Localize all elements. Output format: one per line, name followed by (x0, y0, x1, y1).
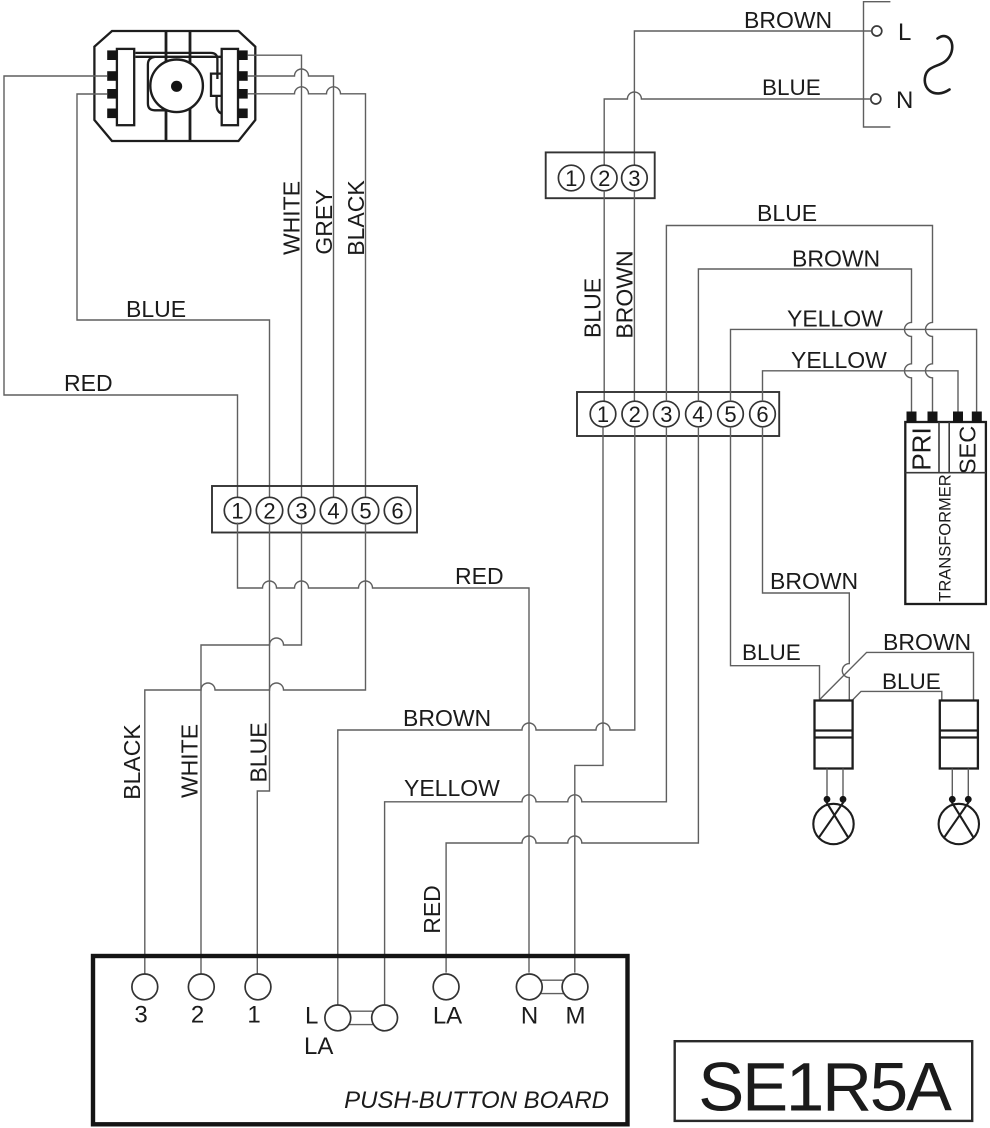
svg-text:PRI: PRI (907, 427, 937, 470)
terminal X3-3 (654, 401, 680, 427)
mains flexible-cord squiggle (925, 36, 952, 93)
wire BLUE: terminal X2-2 to mains N (hops over brown wire) (604, 92, 870, 165)
svg-text:BROWN: BROWN (883, 629, 971, 655)
svg-text:L: L (305, 1003, 318, 1030)
svg-text:YELLOW: YELLOW (787, 306, 883, 332)
terminal X1-5 (352, 497, 378, 523)
terminal X1-6 (384, 497, 410, 523)
svg-text:2: 2 (598, 166, 610, 191)
terminal X2-1 (558, 165, 584, 191)
wire YELLOW: X3-6 to transformer SEC pin1 (763, 371, 959, 412)
board terminal L (jumper left) (325, 1005, 351, 1031)
lamp E1 holder (815, 701, 853, 769)
lamp E1 holder divider lines (815, 731, 853, 738)
svg-text:BLACK: BLACK (343, 180, 369, 256)
svg-text:BROWN: BROWN (792, 246, 880, 272)
wire BLUE: lamp E1 right pin to lamp E2 left pin (diagonal) (853, 691, 942, 700)
wire BROWN: X3-6 to lamp E1 right pin (hops over diagonal) (763, 427, 850, 701)
motor pin right 4 (238, 109, 248, 119)
board terminal N (516, 974, 542, 1000)
board terminal 3 (132, 974, 158, 1000)
svg-text:1: 1 (231, 499, 243, 524)
terminal X1-2 (256, 497, 282, 523)
wire YELLOW: X3-3 to board LA jumper (hops over M wire and red wire) (385, 427, 667, 1005)
svg-text:6: 6 (756, 402, 768, 427)
svg-text:BLUE: BLUE (742, 640, 801, 665)
push-button board outline (93, 956, 628, 1124)
terminal block X3 (577, 392, 779, 436)
wire BROWN: terminal X2-3 to mains L (634, 31, 871, 165)
svg-text:SE1R5A: SE1R5A (698, 1049, 952, 1126)
svg-text:3: 3 (628, 166, 640, 191)
motor pin left 1 (107, 50, 117, 60)
svg-text:SEC: SEC (955, 426, 981, 474)
svg-text:5: 5 (359, 499, 371, 524)
motor capacitor symbol (211, 74, 221, 96)
terminal X3-2 (622, 401, 648, 427)
svg-text:RED: RED (64, 370, 113, 396)
lamp E2 bulb circle with X (939, 804, 979, 844)
svg-text:YELLOW: YELLOW (791, 347, 887, 373)
motor pin right 3 (238, 89, 248, 99)
motor terminal bracket right (222, 49, 238, 125)
svg-text:BLUE: BLUE (246, 722, 272, 782)
lamp E1 leads (827, 769, 843, 799)
motor M1 body octagon (94, 31, 255, 141)
terminal X3-6 (750, 401, 776, 427)
model label box SE1R5A (675, 1041, 973, 1121)
transformer pin (928, 412, 938, 423)
motor rotor circle (150, 60, 203, 113)
lamp E2 holder divider lines (940, 731, 978, 738)
wire WHITE: X1-3 to board terminal 2 (hops over blue) (201, 523, 302, 975)
svg-text:N: N (896, 87, 913, 114)
board terminal LA (433, 974, 459, 1000)
svg-text:N: N (521, 1003, 538, 1030)
motor internal wire J-drop to strap (148, 57, 167, 110)
lamp E2 holder (940, 701, 978, 769)
lamp E1 lead dots (824, 796, 831, 803)
terminal block X2 (546, 152, 655, 198)
wire BLUE: motor left pin3 to terminal X1-2 (77, 94, 270, 497)
svg-text:RED: RED (455, 563, 504, 589)
svg-text:BLUE: BLUE (762, 75, 821, 100)
svg-text:LA: LA (304, 1033, 333, 1060)
lamp E2 lead dots (949, 796, 956, 803)
svg-text:LA: LA (433, 1003, 462, 1030)
wire RED: X3-4 to board LA (hops over M wire and red wire) (446, 427, 698, 973)
wire BLUE: X3-5 to lamp E1 left pin (731, 427, 820, 701)
wire: X3-1 to board M (jog left) (575, 427, 603, 973)
terminal X3-5 (718, 401, 744, 427)
wire BLACK: X1-5 to board terminal 3 (hops over blue, white) (145, 523, 366, 975)
svg-text:M: M (566, 1003, 586, 1030)
svg-text:PUSH-BUTTON BOARD: PUSH-BUTTON BOARD (344, 1087, 609, 1114)
svg-text:L: L (898, 19, 911, 46)
board terminal M (562, 974, 588, 1000)
svg-text:BLUE: BLUE (580, 278, 606, 338)
transformer pin (972, 412, 982, 423)
svg-text:BROWN: BROWN (403, 705, 491, 731)
board terminal 1 (245, 974, 271, 1000)
svg-text:3: 3 (134, 1002, 147, 1029)
terminal X1-1 (224, 497, 250, 523)
svg-text:2: 2 (629, 402, 641, 427)
svg-text:TRANSFORMER: TRANSFORMER (937, 474, 955, 602)
terminal X2-3 (622, 165, 648, 191)
wire WHITE: motor right pin1 to terminal X1-3 (248, 55, 302, 497)
motor mounting strap left (165, 31, 168, 141)
board terminal LA (jumper right) (372, 1005, 398, 1031)
svg-text:BLUE: BLUE (882, 669, 941, 694)
svg-text:1: 1 (565, 166, 577, 191)
motor internal wire capacitor to bracket (217, 96, 227, 114)
motor internal wire lower (bracket to bracket) (135, 56, 221, 58)
terminal X3-4 (686, 401, 712, 427)
wire BLUE: X1-2 to board terminal 1 (257, 523, 269, 975)
mains terminal N (871, 94, 881, 104)
wire BROWN: X3-4 to transformer PRI pin1 (hops over yellows) (698, 269, 911, 412)
svg-text:3: 3 (295, 499, 307, 524)
transformer pin (953, 412, 963, 423)
svg-text:4: 4 (327, 499, 339, 524)
wire BLUE: X3-3 to transformer PRI pin2 (hops over yellows) (666, 226, 932, 412)
wire RED: motor left pin2 to terminal X1-1 (4, 76, 238, 497)
terminal X3-1 (590, 401, 616, 427)
terminal X1-4 (320, 497, 346, 523)
wire BROWN: lamp E1 left pin to lamp E2 right pin (diagonal) (820, 652, 974, 700)
motor terminal bracket left (117, 49, 134, 125)
svg-text:YELLOW: YELLOW (404, 775, 500, 801)
transformer T1 body (905, 422, 986, 604)
wire BROWN: X3-2 to board L (hops over X3-1 wire and red wire) (338, 427, 635, 1005)
wire RED: X1-1 to board N (hops over 2,3,5 wires) (238, 523, 530, 973)
transformer PRI/SEC dividers (905, 422, 986, 473)
svg-text:2: 2 (263, 499, 275, 524)
motor pin left 2 (107, 71, 117, 81)
svg-text:BROWN: BROWN (770, 568, 858, 594)
svg-text:1: 1 (247, 1002, 260, 1029)
svg-text:2: 2 (191, 1002, 204, 1029)
svg-text:3: 3 (660, 402, 672, 427)
svg-text:BLUE: BLUE (126, 296, 186, 322)
wire BLUE: X2-2 down to X3-1 (603, 191, 605, 402)
terminal X2-2 (591, 165, 617, 191)
transformer pin (907, 412, 917, 423)
mains supply bracket (864, 2, 891, 127)
svg-text:BLUE: BLUE (757, 200, 817, 226)
board jumper bar N-M (541, 980, 564, 993)
mains terminal L (872, 26, 882, 36)
svg-text:BLACK: BLACK (119, 724, 145, 800)
svg-text:4: 4 (692, 402, 704, 427)
board terminal 2 (188, 974, 214, 1000)
motor pin left 4 (107, 109, 117, 119)
svg-text:5: 5 (724, 402, 736, 427)
terminal X1-3 (288, 497, 314, 523)
lamp E2 leads (952, 769, 968, 799)
svg-text:WHITE: WHITE (279, 181, 305, 255)
svg-text:BROWN: BROWN (612, 250, 638, 338)
motor internal wire upper (to capacitor) (135, 53, 217, 79)
svg-text:BROWN: BROWN (744, 7, 832, 33)
svg-text:WHITE: WHITE (177, 724, 203, 798)
svg-text:1: 1 (597, 402, 609, 427)
wire GREY: motor right pin2 to terminal X1-4 (hops over white) (248, 69, 334, 497)
motor shaft dot (171, 81, 182, 92)
wire BROWN: X2-3 down to X3-2 (633, 191, 635, 402)
terminal block X1 (212, 486, 417, 533)
motor pin right 1 (238, 50, 248, 60)
board jumper bar L-LA (349, 1011, 373, 1024)
wire YELLOW: X3-5 to transformer SEC pin2 (731, 329, 977, 411)
lamp E1 bulb circle with X (813, 804, 853, 844)
svg-text:RED: RED (419, 885, 445, 934)
svg-text:GREY: GREY (311, 189, 337, 254)
motor pin left 3 (107, 89, 117, 99)
svg-text:6: 6 (391, 499, 403, 524)
wire BLACK: motor right pin3 to terminal X1-5 (hops over white and grey) (248, 87, 366, 497)
motor mounting strap right (189, 31, 192, 141)
motor pin right 2 (238, 71, 248, 81)
